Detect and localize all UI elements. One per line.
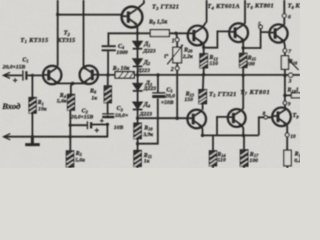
wire: T6 collector to top edge: [243, 0, 245, 25]
test node 8 circle: [264, 116, 267, 119]
wire: R10 top lead: [137, 118, 139, 123]
wire: bus to R13 top: [202, 75, 205, 90]
wire: T9 collector up through node 9: [284, 105, 286, 109]
wire: R12 top lead: [203, 47, 205, 53]
C2 polarity plus: [95, 128, 99, 132]
wire: T2 collector vertical to top edge: [84, 0, 86, 69]
node dot R1 top on input wire: [31, 74, 34, 77]
wire: node 2 down across bus to T5 base wire: [176, 70, 178, 118]
wire: R4 top lead: [71, 84, 73, 95]
wire: C5 top lead to bus: [157, 75, 159, 92]
transistor T3 (ГТ321): [122, 7, 143, 28]
wire: T5 base wire from diode node: [138, 117, 188, 119]
wire: T6 emitter down to node dot: [242, 40, 244, 48]
resistor R13 (hatched box): [199, 90, 206, 104]
wire: C3 bottom node down to ground bus corner: [86, 124, 107, 136]
capacitor C4 plates: [102, 45, 116, 47]
wire: R9 right lead to T4 base: [169, 32, 188, 34]
resistor R1 (hatched box): [29, 98, 36, 113]
node dot T6 emitter: [242, 46, 245, 49]
wire: T1 collector vertical to top edge: [56, 0, 58, 68]
wire: bootstrap C5 lead: [138, 98, 158, 143]
resistor R12 (hatched box): [200, 54, 207, 68]
wire: T4 emitter down to R12 node: [203, 43, 204, 47]
test node 5 circle: [259, 25, 263, 29]
node dot R16 bottom on bus: [283, 74, 286, 77]
transistor T8: [269, 24, 287, 42]
wire: R16 bottom lead: [284, 69, 286, 75]
wire: R16 top to node 7: [284, 53, 286, 56]
resistor R4 (hatched box): [68, 95, 75, 111]
output terminal arrow bottom left: [4, 134, 11, 140]
wire: C2 right lead to C3 bottom node: [92, 124, 108, 126]
C1 polarity plus: [13, 78, 17, 82]
node dot T3 emitter lead: [136, 32, 139, 35]
resistor R10 (hatched box): [134, 123, 141, 138]
resistor R16 (box): [281, 56, 288, 70]
wire: stub to test node 1: [175, 33, 178, 38]
wire: top horizontal from T1 collector node to T3 base: [58, 14, 122, 16]
test node 10 circle: [285, 133, 289, 137]
wire: R19 bottom lead: [286, 166, 288, 168]
node dot R18 tap: [283, 94, 286, 97]
wire: T4 collector to top edge: [202, 0, 206, 28]
wire: T8 collector up through node 6 to top edge: [283, 18, 284, 26]
wire: R18 left lead: [285, 94, 292, 96]
node dot diode column bottom: [136, 117, 139, 120]
node dot T4 emitter junction: [202, 46, 205, 49]
test node 9 circle: [283, 101, 287, 105]
wire: R14 top lead: [212, 135, 214, 151]
wire: T5 emitter down: [201, 126, 204, 135]
wire: R6 top lead to feedback bus: [107, 75, 109, 86]
output bus horizontal (feedback line): [98, 74, 300, 76]
diode D1: [133, 41, 143, 49]
wire: R14 bottom lead: [212, 166, 214, 168]
node dot emitters: [71, 82, 74, 85]
transistor T1 (КТ315): [43, 66, 61, 84]
wire: C2 left lead from R4 node: [70, 124, 87, 126]
resistor R19 (box, bottom right): [284, 150, 291, 166]
C3 polarity plus: [100, 119, 104, 123]
wire: C3 top lead / R6 bottom lead column: [107, 103, 109, 119]
node dot R12/R13 on bus: [202, 73, 205, 76]
wire: R13 bottom to T5 collector: [202, 104, 204, 110]
transistor T9 (output): [272, 108, 291, 127]
resistor R17 (hatched box): [240, 150, 247, 166]
resistor R11 (hatched box): [134, 151, 141, 167]
wire: node 6 to top edge: [283, 0, 285, 14]
capacitor C1 plates: [22, 70, 24, 80]
node dot diode string on bus: [136, 73, 140, 77]
wire: C4 bottom lead: [107, 51, 109, 75]
wire: input line from left arrow to T1 base: [3, 74, 43, 76]
wire: emitter coupling T1-T2: [57, 82, 85, 84]
node dot C3 bottom: [106, 123, 109, 126]
transistor T2 (КТ315, mirrored): [80, 66, 98, 84]
node dot R20 tap: [174, 32, 177, 35]
wire: T9 emitter down through node 10: [286, 124, 287, 133]
node dot C5 top on bus: [156, 73, 160, 77]
wire: T3 emitter down to bias rail: [136, 25, 139, 34]
diode D2: [133, 59, 143, 67]
node dot R15/T7 on bus: [242, 74, 245, 77]
blotch overlay: [0, 0, 300, 168]
diode D4: [133, 102, 143, 110]
capacitor C5 plates: [152, 92, 165, 94]
node dot node2-line on T5 base: [175, 116, 179, 120]
input terminal arrow: [3, 72, 10, 78]
resistor R14 (hatched box): [210, 151, 217, 166]
film grain overlay: [0, 0, 300, 168]
wire: T7 base riser: [217, 117, 228, 135]
node junction dot at (57.7,14.5): [56, 13, 59, 16]
node dot on ground bus: [69, 135, 72, 138]
wire: C4 top lead and bias rail to R9: [108, 33, 150, 45]
resistor R20 trimmer (box with arrow): [167, 45, 183, 65]
diode column vertical wire: [136, 33, 138, 118]
wire: T3 collector up to top edge: [137, 0, 144, 9]
node dot T5 emitter: [201, 134, 204, 137]
wire: node1 to R20 top: [176, 42, 178, 48]
wire: T7 collector up to bus: [241, 75, 243, 110]
wire: R15 bottom lead to bus: [242, 67, 244, 75]
wire: R20 bottom to node 2: [176, 63, 178, 67]
node dot ground-symbol tap: [31, 135, 34, 138]
transistor T7 (КТ801): [228, 109, 246, 127]
wire: R15 top lead: [242, 48, 244, 53]
node dot C2 branch: [69, 124, 72, 127]
wire: bottom drive rail T5 to T9 base corner: [203, 134, 259, 136]
diode D3: [133, 83, 143, 91]
node dot bootstrap tap: [136, 142, 139, 145]
test node 6 circle: [282, 14, 286, 18]
wire: node 9 up to R18 tap and bus: [284, 76, 286, 102]
wire: T9 base riser with node 8: [259, 117, 273, 135]
wire: node 10 to R19: [286, 137, 288, 150]
wire: R11 bottom lead: [137, 166, 139, 168]
resistor R15 (hatched box): [240, 53, 247, 67]
transistor T5 (ГТ321): [187, 110, 206, 129]
wire: T7 emitter down: [241, 125, 243, 135]
transistor T6 (КТ801): [229, 23, 248, 42]
wire: T4 emitter to T6 base: [204, 31, 230, 47]
wire: R10 bottom to R11 with bootstrap tap: [137, 139, 139, 151]
wire: R12 bottom lead to output bus: [203, 68, 205, 75]
resistor R9 (box): [150, 30, 169, 37]
node dot T7 emitter: [242, 134, 245, 137]
resistor R7 (hatched horizontal box on bus): [115, 72, 134, 78]
resistor R18 (horizontal box, clipped right): [291, 93, 301, 98]
test node 3 circle on bus right: [288, 73, 292, 77]
wire: node 7 to T8 emitter: [284, 41, 285, 49]
capacitor C2 plates: [86, 121, 88, 129]
resistor R5 (hatched box): [66, 151, 73, 167]
wire: R1 bottom lead to ground bus: [31, 113, 33, 137]
capacitor C3 plates: [102, 113, 114, 115]
node dot R6/C4 on bus: [106, 73, 109, 76]
wire: R4 bottom lead down through C2 tap to ground bus: [69, 110, 71, 151]
ground symbol: [25, 137, 40, 145]
wire: R17 bottom lead: [243, 166, 245, 168]
ground bus horizontal: [3, 136, 107, 138]
test node 7 circle: [283, 49, 287, 53]
wire: R5 bottom lead: [69, 167, 71, 168]
wire: R1 top lead: [31, 75, 33, 97]
test node 1 circle: [175, 38, 179, 42]
transistor T4 (КТ601А): [188, 26, 208, 46]
test node 2 circle: [175, 66, 179, 70]
wire: R17 top lead: [243, 135, 245, 150]
resistor R6 (hatched box): [104, 86, 111, 103]
wire: T6 emitter to T8 base with node 5 stub: [243, 29, 269, 48]
